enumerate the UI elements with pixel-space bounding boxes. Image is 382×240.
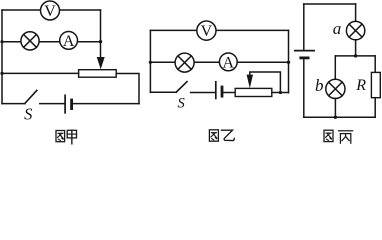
svg-text:S: S (177, 96, 185, 112)
乙 (222, 130, 235, 140)
wire: second row wire of 乙 (150, 61, 288, 63)
wire: bottom wire right of rheostat (乙) (272, 92, 289, 94)
svg-text:A: A (223, 54, 235, 71)
node: junction of wiper loop and bottom wire (乙) (279, 91, 282, 94)
wire: branch down to resistor R (丙) (374, 56, 376, 73)
wire: lamp b to bottom wire (丙) (334, 99, 336, 118)
svg-text:b: b (315, 76, 324, 95)
voltmeter V (乙) (197, 21, 216, 40)
resistor R body (丙) (371, 72, 380, 97)
wire: third row wire right of rheostat down to bottom (甲) (116, 74, 139, 104)
wire: right edge of 甲 down to wiper (100, 10, 102, 58)
ammeter A (乙) (219, 53, 237, 71)
voltmeter V (甲) (41, 1, 60, 20)
wire: lamp a to parallel node (丙) (355, 40, 357, 56)
label 图乙 (209, 130, 234, 141)
ammeter A (甲) (60, 32, 78, 50)
svg-text:a: a (333, 19, 342, 38)
switch S (乙) (176, 82, 187, 93)
node: junction of left edge and third wire (甲) (0, 72, 3, 75)
lamp (乙) (175, 53, 194, 72)
lamp (甲) (21, 32, 39, 50)
rheostat body (乙) (235, 88, 272, 96)
wire: left edge of 甲 (1, 10, 3, 104)
丙 (339, 131, 353, 143)
wire: second row wire of 甲 (2, 41, 101, 43)
lamp b (丙) (326, 79, 345, 98)
node: junction of lamp a stem and parallel wire (丙) (354, 54, 357, 57)
svg-text:V: V (44, 3, 56, 20)
wire: bottom wire between switch and battery (乙) (191, 92, 216, 94)
node: junction of left edge and second wire (甲) (0, 40, 3, 43)
node: junction of lamp b stem and bottom wire (丙) (334, 116, 337, 119)
svg-text:A: A (63, 33, 75, 50)
node: junction of right edge and second wire (甲) (99, 40, 102, 43)
wire: left edge of 乙 (149, 30, 151, 92)
wire: bottom wire of 丙 (304, 116, 375, 118)
wire: resistor R to bottom wire (丙) (374, 98, 376, 118)
wire: top wire of 丙 (304, 3, 356, 5)
label 图丙 (324, 130, 353, 143)
node: junction of right edge and second wire (乙) (287, 61, 290, 64)
wire: bottom wire left segment (甲) (2, 103, 25, 105)
switch S (甲) (25, 90, 37, 103)
wire: wiper loop to right edge (乙) (250, 72, 281, 93)
wire: branch down to lamp b (丙) (334, 56, 336, 80)
wire: third row wire left of rheostat (甲) (2, 72, 79, 74)
battery (丙) (295, 51, 314, 58)
rheostat wiper arrow (甲) (97, 57, 105, 69)
battery (乙) (216, 82, 222, 99)
label 图甲 (56, 130, 77, 144)
node: junction of left edge and second wire (乙) (149, 61, 152, 64)
wire: bottom wire left segment (乙) (150, 91, 176, 93)
wire: right edge of 乙 (288, 30, 290, 92)
svg-text:R: R (355, 77, 366, 94)
wire: parallel top wire (丙) (335, 55, 375, 57)
lamp a (丙) (346, 21, 364, 39)
svg-text:S: S (24, 105, 32, 124)
wire: left edge upper segment of 丙 (303, 4, 305, 51)
wire: top wire of 乙 (150, 29, 288, 31)
rheostat wiper arrow (乙) (247, 75, 253, 89)
svg-text:V: V (201, 23, 213, 40)
wire: left edge lower segment of 丙 (303, 58, 305, 117)
wire: bottom wire between switch and battery (甲) (40, 103, 65, 105)
wire: bottom wire between battery and rheostat (乙) (223, 92, 235, 94)
wire: top wire of 甲 (2, 9, 101, 11)
battery (甲) (65, 95, 72, 113)
rheostat body (甲) (79, 70, 117, 78)
wire: right edge of 丙 top to lamp a (355, 4, 357, 21)
wire: bottom wire right of battery (甲) (73, 103, 139, 105)
